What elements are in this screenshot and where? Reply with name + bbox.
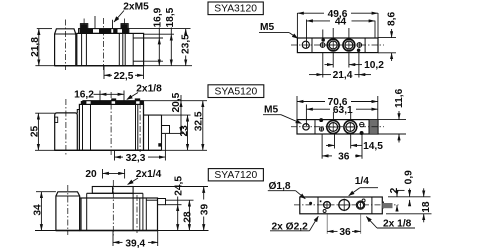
dim 21,8 — [38, 29, 40, 66]
row3 ext lines right — [388, 196, 431, 198]
dim 44 — [307, 20, 331, 22]
dim 20 — [102, 169, 104, 179]
svg-text:23,5: 23,5 — [180, 34, 191, 54]
row2 big port 2 — [344, 121, 357, 134]
row1 big port 1 — [327, 39, 339, 51]
row2 M5 hole — [303, 124, 309, 130]
svg-text:24,5: 24,5 — [174, 176, 185, 196]
dim 22,5 — [103, 66, 105, 79]
svg-text:18: 18 — [421, 201, 432, 213]
dim 36 row3 — [326, 215, 328, 234]
svg-text:21,4: 21,4 — [333, 70, 353, 81]
row3 right tab — [382, 203, 392, 208]
row2 valve body — [79, 104, 143, 150]
dim 20,5 — [180, 101, 182, 134]
row1 screw boss left — [80, 24, 87, 29]
row1 big port 2 — [343, 39, 355, 51]
row3 centerlines — [67, 185, 69, 235]
row2 fitting centerline — [139, 103, 141, 152]
svg-text:32,5: 32,5 — [194, 111, 205, 131]
dim 34 — [40, 192, 42, 231]
row1 port sections (solid) — [80, 29, 93, 33]
row2 step block — [77, 110, 79, 114]
svg-text:SYA7120: SYA7120 — [214, 170, 257, 181]
row3 center port 1/4 — [339, 200, 350, 211]
row1 screw boss right — [121, 24, 128, 29]
row2 side view baseline — [35, 149, 207, 151]
dim 18 — [423, 188, 425, 197]
svg-text:18,5: 18,5 — [165, 7, 176, 27]
dim 21,4 — [309, 74, 323, 76]
svg-text:21,8: 21,8 — [30, 37, 41, 57]
row3 port boss left — [92, 187, 112, 194]
row1 pin hole bottom — [357, 49, 360, 52]
row3 pin mark left — [320, 200, 322, 202]
dim 49,6 — [297, 12, 324, 14]
dim 70,6 — [297, 101, 325, 103]
row2 centerlines — [65, 99, 67, 155]
row3 ext lines right — [133, 186, 208, 188]
svg-text:11,6: 11,6 — [394, 88, 405, 108]
svg-text:20: 20 — [85, 169, 97, 180]
row3 top plate line — [87, 192, 143, 194]
svg-text:10,2: 10,2 — [364, 60, 384, 71]
dim 16,9 — [158, 38, 160, 66]
row3 plate — [300, 197, 383, 214]
row1 small hole A — [320, 43, 325, 48]
row2 pin hole bottom — [360, 132, 363, 135]
dim 39 — [203, 187, 205, 200]
row3 port hole A — [324, 202, 331, 209]
row3 solenoid body — [56, 192, 80, 231]
svg-text:14,5: 14,5 — [363, 141, 383, 152]
row1 valve body — [77, 33, 144, 65]
row2 port boss left — [111, 98, 116, 101]
svg-text:32,3: 32,3 — [126, 153, 146, 164]
svg-text:2x1/4: 2x1/4 — [136, 169, 162, 180]
dim 2 — [396, 191, 398, 196]
row3 plate centerline — [294, 204, 399, 206]
row3 port boss right — [113, 187, 133, 194]
row2 small hole B — [360, 122, 364, 126]
svg-text:SYA3120: SYA3120 — [214, 4, 257, 15]
dim 11,6 — [378, 119, 406, 121]
svg-text:2: 2 — [389, 187, 400, 193]
row2 right fitting block — [143, 101, 145, 151]
label box SYA5120 — [208, 85, 264, 98]
row1 M5 hole — [302, 41, 309, 48]
row2 top plate — [83, 100, 144, 102]
row1 top plate — [79, 29, 129, 34]
svg-text:SYA5120: SYA5120 — [215, 86, 258, 97]
row3 fitting centerline — [136, 195, 138, 233]
row2 port sections (solid) — [81, 101, 87, 104]
row1 top ext lines — [296, 13, 298, 38]
dim 10,2 — [325, 64, 334, 66]
row3 pin hole TR — [362, 199, 365, 202]
svg-text:0,9: 0,9 — [404, 170, 415, 184]
svg-text:M5: M5 — [260, 22, 274, 33]
svg-text:39: 39 — [200, 204, 211, 216]
svg-text:16,9: 16,9 — [152, 7, 163, 27]
row2 plate centerline — [291, 126, 384, 128]
svg-text:63,1: 63,1 — [333, 105, 353, 116]
dim 24,5 — [177, 197, 179, 205]
dim 36 row2 — [322, 155, 332, 157]
row1 pilot line stubs — [94, 16, 96, 29]
dim 18,5 — [170, 34, 172, 65]
row2 pin hole top — [320, 119, 323, 122]
dim 8,6 — [378, 37, 396, 39]
row1 centerlines — [64, 20, 66, 71]
row2 port boss right — [135, 98, 140, 101]
label box SYA7120 — [208, 169, 263, 181]
row3 pin hole LL — [323, 210, 326, 213]
row1 hole centerline stubs — [322, 30, 324, 39]
row2 top ext lines — [296, 96, 298, 120]
row2 small hole A — [319, 127, 323, 131]
svg-text:8,6: 8,6 — [387, 12, 398, 26]
row3 body internal lines — [132, 193, 134, 230]
row2 body internal lines — [90, 104, 92, 150]
row2 port mark — [158, 143, 161, 146]
row1 plate centerline — [291, 44, 384, 46]
row2 right tab — [162, 126, 170, 134]
svg-text:36: 36 — [338, 151, 350, 162]
dim 63,1 — [306, 108, 330, 110]
svg-text:2x1/8: 2x1/8 — [136, 84, 162, 95]
svg-text:39,4: 39,4 — [125, 238, 145, 249]
dim 14,5 — [326, 144, 335, 146]
row3 small drilled dot — [310, 202, 312, 204]
svg-text:20,5: 20,5 — [171, 92, 182, 112]
dim 0,9 — [409, 189, 411, 197]
row2 solenoid body — [55, 113, 78, 150]
dim 39,4 — [112, 231, 114, 246]
row1 pin hole top — [322, 39, 325, 42]
row1 ext lines right — [129, 28, 191, 30]
row2 right dark block — [369, 120, 378, 134]
svg-text:28: 28 — [183, 211, 194, 223]
svg-text:44: 44 — [335, 16, 347, 27]
row2 solenoid notch — [55, 117, 58, 122]
svg-text:16,2: 16,2 — [74, 90, 94, 101]
row2 plate — [297, 120, 378, 134]
svg-text:34: 34 — [33, 204, 44, 216]
svg-text:2xM5: 2xM5 — [123, 1, 149, 12]
svg-text:22,5: 22,5 — [114, 71, 134, 82]
row3 port hole B — [357, 202, 363, 208]
row3 right fitting block — [146, 199, 157, 201]
row1 body internal lines — [81, 33, 83, 65]
row2 ext lines right — [144, 100, 208, 102]
svg-text:1/4: 1/4 — [355, 176, 369, 187]
svg-text:M5: M5 — [264, 104, 278, 115]
row1 side view baseline — [35, 65, 192, 67]
row1 plate — [297, 38, 378, 53]
dim 32,5 — [202, 101, 204, 151]
svg-text:23: 23 — [179, 125, 190, 137]
dim 23,5 — [185, 29, 187, 35]
row1 small hole B — [357, 43, 362, 48]
row1 solenoid body — [55, 29, 76, 66]
row1 right fitting block — [133, 37, 143, 39]
svg-text:36: 36 — [339, 227, 351, 238]
label box SYA3120 — [208, 2, 263, 15]
svg-text:25: 25 — [30, 126, 41, 138]
dim 28 — [188, 200, 190, 230]
dim 32,3 — [114, 151, 116, 161]
row3 right tab — [158, 199, 166, 205]
row3 side view baseline — [35, 230, 209, 232]
row2 hole centerline stubs — [332, 112, 334, 120]
row3 valve body — [80, 198, 158, 231]
dim 23 — [187, 115, 189, 150]
dim 25 — [37, 113, 39, 150]
row2 big port 1 — [327, 121, 340, 134]
